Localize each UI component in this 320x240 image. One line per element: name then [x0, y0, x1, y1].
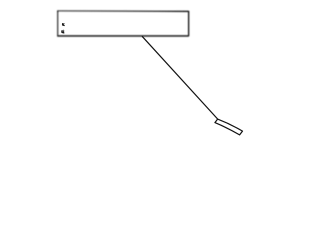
top-left corner dot [57, 11, 58, 12]
bottom edge [57, 35, 189, 37]
label a [61, 30, 64, 34]
top edge [57, 10, 188, 13]
label c [62, 23, 65, 26]
left edge [57, 11, 59, 36]
board rectangle [57, 11, 189, 36]
right edge [188, 11, 190, 36]
grip parallelogram [215, 119, 243, 135]
handle line [142, 36, 218, 119]
